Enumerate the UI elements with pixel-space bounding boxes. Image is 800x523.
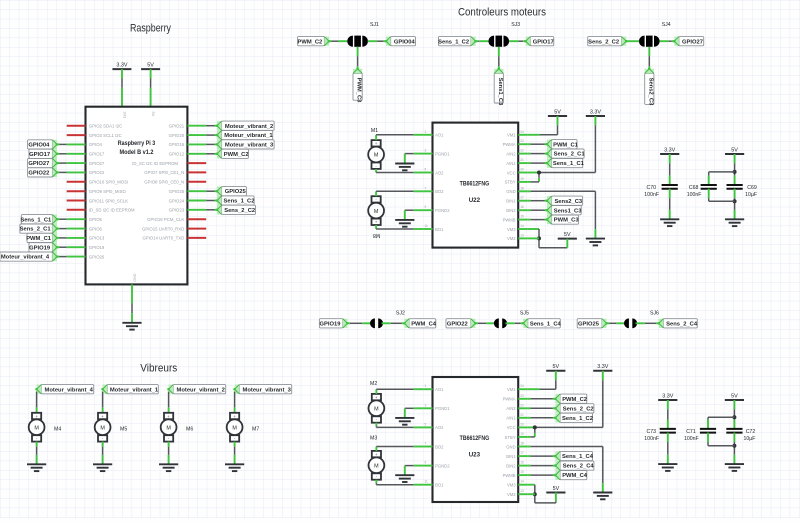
- net label PWM_C4: [554, 471, 588, 480]
- svg-text:100nF: 100nF: [684, 436, 699, 442]
- svg-text:M: M: [374, 209, 379, 215]
- svg-text:AIN2: AIN2: [506, 406, 516, 411]
- wire GPIO27 to U21: [57, 162, 86, 164]
- wire U23 AIN2 to Sens_2_C2: [528, 407, 556, 409]
- svg-text:M3: M3: [370, 435, 377, 441]
- wire U23 VCC to 3.3V: [528, 426, 603, 428]
- svg-text:PWM_C2: PWM_C2: [297, 39, 322, 45]
- svg-text:PWM_C1: PWM_C1: [553, 142, 579, 148]
- svg-text:PWM_C4: PWM_C4: [562, 473, 588, 479]
- wire M1 - to U22 AO2: [376, 172, 423, 174]
- wire 3.3V to C70: [669, 154, 671, 185]
- svg-text:GPIO17: GPIO17: [533, 39, 554, 45]
- net label Sens_1_C4: [554, 451, 594, 460]
- junction: [533, 425, 537, 429]
- svg-text:PWMA: PWMA: [503, 142, 516, 147]
- svg-text:5V: 5V: [731, 147, 738, 153]
- net label PWM_C1: [26, 233, 58, 242]
- svg-text:BO2: BO2: [435, 444, 444, 449]
- solder jumper SJ5: [494, 310, 529, 328]
- wire PGND2 drop: [404, 466, 406, 476]
- svg-text:GPIO19: GPIO19: [89, 245, 105, 250]
- svg-text:C72: C72: [746, 429, 756, 435]
- net label Sens1_C3: [494, 68, 503, 107]
- svg-text:Sens_2_C4: Sens_2_C4: [666, 321, 698, 327]
- power 5V (Raspberry): [141, 63, 160, 70]
- svg-text:Moteur_vibrant_4: Moteur_vibrant_4: [45, 387, 94, 393]
- wire 5V to U21 pin 5V: [150, 69, 152, 107]
- Raspberry Pi U21 body: [86, 107, 188, 285]
- wire GPIO22 to U21: [57, 171, 86, 173]
- wire 3.3V column: [594, 116, 596, 173]
- unconnected pin stub GPIO7 SPI0_CE1_N: [187, 171, 206, 173]
- svg-text:PWM_C1: PWM_C1: [26, 236, 52, 242]
- wire U21 to Sens_1_C2: [187, 200, 217, 202]
- svg-text:Sens_2_C2: Sens_2_C2: [224, 208, 255, 214]
- svg-text:Raspberry: Raspberry: [130, 23, 171, 35]
- svg-text:GND: GND: [133, 273, 137, 282]
- svg-text:3.3V: 3.3V: [116, 63, 127, 69]
- net label Moteur_vibrant_3: [216, 140, 274, 149]
- svg-text:Sens_1_C2: Sens_1_C2: [438, 39, 469, 45]
- svg-text:Sens1_C3: Sens1_C3: [554, 208, 582, 214]
- svg-text:1: 1: [425, 384, 427, 388]
- junction: [533, 492, 537, 496]
- ground (M7): [225, 464, 244, 471]
- svg-text:22: 22: [520, 403, 524, 407]
- svg-text:VM1: VM1: [507, 387, 516, 392]
- svg-text:PWM_C4: PWM_C4: [411, 321, 437, 327]
- net label Sens_1_C1: [20, 215, 58, 224]
- svg-text:Sens_1_C2: Sens_1_C2: [224, 199, 255, 205]
- ground (C73): [658, 464, 677, 471]
- net label Sens_1_C2: [438, 37, 477, 46]
- svg-text:GPIO21: GPIO21: [169, 124, 185, 129]
- svg-text:GPIO19: GPIO19: [29, 245, 51, 251]
- wire AO1 riser to M1 +: [375, 135, 377, 140]
- unconnected pin stub GPIO3 SCL1 I2C: [67, 134, 86, 136]
- svg-text:M: M: [100, 425, 105, 431]
- net label GPIO25: [577, 319, 608, 328]
- net label Sens_2_C4: [658, 319, 698, 328]
- svg-text:PWMB: PWMB: [503, 473, 516, 478]
- wire 5V stub: [555, 493, 557, 503]
- wire U22 PGND2: [405, 209, 423, 211]
- svg-text:AO1: AO1: [435, 133, 444, 138]
- svg-text:GPIO04: GPIO04: [394, 39, 416, 45]
- svg-text:GPIO22: GPIO22: [89, 170, 105, 175]
- solder jumper SJ6: [624, 310, 659, 328]
- wire U23 PWMA to PWM_C2: [528, 398, 556, 400]
- wire U23 VM2: [528, 493, 535, 495]
- ground (M6): [159, 464, 178, 471]
- wire M5 to ground: [102, 442, 104, 465]
- power 5V (C68 C69): [725, 147, 744, 154]
- net label GPIO17: [29, 149, 58, 158]
- svg-text:10µF: 10µF: [745, 192, 757, 198]
- wire U22 BIN1 to Sens2_C3: [528, 200, 547, 202]
- wire U22 BIN2 to Sens1_C3: [528, 209, 547, 211]
- wire VM3 drop: [538, 229, 540, 248]
- svg-text:BO1: BO1: [435, 483, 444, 488]
- wire SJ4 pad 2 to GPIO27: [660, 40, 675, 42]
- svg-text:M6: M6: [186, 427, 193, 433]
- net label Moteur_vibrant_1 (M5): [101, 385, 159, 394]
- svg-text:100nF: 100nF: [644, 192, 659, 198]
- svg-text:GPIO23: GPIO23: [169, 208, 185, 213]
- svg-text:BO2: BO2: [435, 189, 444, 194]
- net label GPIO17: [524, 37, 553, 46]
- svg-text:22: 22: [520, 149, 524, 153]
- svg-text:GPIO27: GPIO27: [682, 39, 703, 45]
- unconnected pin stub GPIO2 SDA1 I2C: [67, 125, 86, 127]
- svg-text:Model B v1.2: Model B v1.2: [120, 149, 154, 156]
- svg-text:U23: U23: [469, 452, 481, 459]
- svg-text:GPIO6: GPIO6: [89, 226, 103, 231]
- svg-text:17: 17: [520, 451, 524, 455]
- net label Sens_1_C2: [216, 196, 255, 205]
- svg-text:9: 9: [425, 461, 427, 465]
- svg-text:GPIO20: GPIO20: [169, 133, 185, 138]
- wire STBY riser: [534, 427, 536, 437]
- svg-text:Sens_2_C2: Sens_2_C2: [563, 406, 594, 412]
- net label Sens_1_C4: [522, 319, 562, 328]
- svg-text:24: 24: [520, 130, 524, 134]
- svg-text:Moteur_vibrant_4: Moteur_vibrant_4: [1, 255, 50, 261]
- unconnected pin stub ID_SD I2C ID EEPROM: [67, 209, 86, 211]
- svg-text:11: 11: [425, 224, 429, 228]
- IC U23 TB6612FNG body: [423, 377, 527, 502]
- svg-text:AO1: AO1: [435, 387, 444, 392]
- svg-text:PWM_C3: PWM_C3: [554, 218, 580, 224]
- svg-text:3: 3: [425, 403, 427, 407]
- net label Sens_1_C1: [546, 159, 585, 168]
- unconnected pin stub GPIO18 PCM_CLK: [187, 218, 206, 220]
- svg-text:SJ1: SJ1: [370, 22, 379, 28]
- svg-text:M2: M2: [370, 381, 377, 387]
- capacitor C70 100nF: [644, 185, 678, 198]
- net label GPIO04: [28, 140, 59, 149]
- wire U22 VM3: [528, 228, 539, 230]
- svg-text:Vibreurs: Vibreurs: [140, 363, 177, 375]
- net label GPIO27: [28, 159, 59, 168]
- svg-text:Sens2_C3: Sens2_C3: [554, 199, 582, 205]
- svg-text:M: M: [34, 425, 39, 431]
- ground (U23 PGND2): [395, 475, 414, 482]
- svg-text:5V: 5V: [731, 393, 738, 399]
- svg-text:GPIO13: GPIO13: [89, 236, 105, 241]
- ground (M4): [27, 464, 46, 471]
- wire SJ5 to Sens_1_C4: [505, 322, 523, 324]
- wire M4 to ground: [36, 442, 38, 465]
- wire M8 - riser: [375, 225, 377, 229]
- wire SJ6 to Sens_2_C4: [636, 322, 659, 324]
- net label Moteur_vibrant_2: [216, 121, 274, 130]
- unconnected pin stub ID_SC I2C ID EEPROM: [187, 162, 206, 164]
- wire GPIO25 to SJ6: [607, 322, 626, 324]
- svg-text:C70: C70: [647, 185, 657, 191]
- wire C69 to ground: [734, 189, 736, 220]
- wire M2 - riser: [375, 423, 377, 428]
- svg-text:14: 14: [520, 480, 524, 484]
- svg-text:GPIO4: GPIO4: [89, 142, 103, 147]
- net label GPIO04: [385, 37, 416, 46]
- net label Sens_2_C1: [546, 149, 586, 158]
- svg-text:23: 23: [520, 394, 524, 398]
- svg-text:13: 13: [520, 233, 524, 237]
- net label PWM_C3: [353, 68, 362, 104]
- wire M2 - to U23 AO2: [376, 426, 423, 428]
- svg-text:SJ3: SJ3: [511, 22, 520, 28]
- wire 5V to C69: [734, 154, 736, 185]
- wire GPIO19 to SJ2: [347, 322, 371, 324]
- svg-text:SJ4: SJ4: [662, 22, 671, 28]
- capacitor C71 100nF: [684, 429, 716, 442]
- wire C72 to ground: [733, 433, 735, 465]
- wire 5V to C72: [733, 400, 735, 429]
- svg-text:GPIO9 SPI0_MISO: GPIO9 SPI0_MISO: [89, 189, 127, 194]
- wire GPIO17 to U21: [57, 153, 86, 155]
- wire Sens_1_C2 to SJ3 pad 1: [476, 40, 489, 42]
- net label GPIO19: [29, 243, 58, 252]
- svg-text:GPIO15 UART0_RXD: GPIO15 UART0_RXD: [142, 226, 184, 231]
- net label PWM_C2: [297, 37, 330, 46]
- wire SJ4 pad 3 to Sens2_C3: [648, 47, 650, 69]
- svg-text:GPIO04: GPIO04: [28, 143, 50, 149]
- wire C71 top branch: [708, 416, 734, 418]
- svg-text:AIN1: AIN1: [506, 416, 516, 421]
- svg-text:M7: M7: [252, 427, 259, 433]
- wire GPIO22 to SJ5: [475, 322, 495, 324]
- svg-text:VM3: VM3: [507, 227, 516, 232]
- net label Moteur_vibrant_4 (M4): [35, 385, 93, 394]
- svg-text:21: 21: [520, 413, 524, 417]
- svg-text:GPIO25: GPIO25: [225, 189, 247, 195]
- wire U21 to PWM_C2: [187, 153, 217, 155]
- svg-text:GPIO18 PCM_CLK: GPIO18 PCM_CLK: [147, 217, 184, 222]
- svg-text:15: 15: [520, 215, 524, 219]
- svg-text:Controleurs moteurs: Controleurs moteurs: [458, 7, 546, 19]
- wire Sens_2_C2 to SJ4 pad 1: [626, 40, 639, 42]
- motor M5: [95, 413, 128, 442]
- svg-text:TB6612FNG: TB6612FNG: [460, 435, 490, 442]
- svg-text:14: 14: [520, 224, 524, 228]
- svg-text:GPIO22: GPIO22: [28, 171, 49, 177]
- ground (U22 PGND1): [395, 164, 414, 171]
- svg-text:PWM_C2: PWM_C2: [562, 397, 587, 403]
- unconnected pin stub GPIO8 SPI0_CE0_N: [187, 181, 206, 183]
- wire 3.3V column: [602, 371, 604, 428]
- svg-text:M5: M5: [120, 427, 127, 433]
- motor M3: [369, 435, 385, 479]
- svg-text:GPIO7 SPI0_CE1_N: GPIO7 SPI0_CE1_N: [144, 170, 184, 175]
- svg-text:15: 15: [520, 470, 524, 474]
- wire SJ1 pad 3 to PWM_C3: [357, 47, 359, 69]
- svg-text:GPIO24: GPIO24: [169, 198, 185, 203]
- svg-text:Sens_2_C1: Sens_2_C1: [554, 152, 586, 158]
- wire to 5V: [535, 502, 556, 504]
- wire U22 AIN1 to Sens_1_C1: [528, 162, 547, 164]
- wire PWM_C1 to U21: [57, 237, 86, 239]
- wire M7 to ground: [234, 442, 236, 465]
- ground (U23 GND): [593, 493, 612, 500]
- svg-text:PGND2: PGND2: [435, 463, 450, 468]
- svg-text:GPIO17: GPIO17: [89, 152, 105, 157]
- svg-text:PGND1: PGND1: [435, 406, 450, 411]
- svg-text:VCC: VCC: [507, 170, 516, 175]
- net label Sens1_C3: [546, 206, 583, 215]
- wire C71 bottom: [707, 433, 709, 446]
- svg-text:5V: 5V: [151, 112, 155, 117]
- wire M3 + to U23 BO2: [376, 446, 423, 448]
- junction: [732, 415, 736, 419]
- net label Sens2_C3: [645, 68, 654, 107]
- wire M6 to ground: [168, 442, 170, 465]
- svg-text:Moteur_vibrant_2: Moteur_vibrant_2: [177, 387, 225, 393]
- wire U22 PWMB to PWM_C3: [528, 219, 547, 221]
- wire U23 PGND2: [405, 465, 423, 467]
- svg-text:GPIO19: GPIO19: [320, 321, 342, 327]
- net label Moteur_vibrant_4: [0, 252, 58, 261]
- net label GPIO19: [319, 319, 348, 328]
- wire BO2 riser to M8: [375, 191, 377, 196]
- svg-text:C71: C71: [686, 429, 696, 435]
- power 5V (U22 VM1): [548, 109, 567, 116]
- svg-text:Moteur_vibrant_1: Moteur_vibrant_1: [224, 133, 273, 139]
- wire GPIO19 to U21: [57, 246, 86, 248]
- wire U21 GND to ground: [131, 284, 133, 322]
- svg-text:11: 11: [425, 480, 429, 484]
- power 3.3V (Raspberry): [112, 63, 131, 70]
- wire C73 to ground: [667, 433, 669, 465]
- svg-text:Sens1_C3: Sens1_C3: [497, 78, 503, 106]
- wire U23 VM1 to 5V: [528, 388, 556, 390]
- svg-text:GPIO25: GPIO25: [169, 189, 185, 194]
- power 5V (U22 VM2): [558, 232, 577, 239]
- svg-text:BIN1: BIN1: [506, 454, 516, 459]
- net label PWM_C3: [546, 215, 580, 224]
- wire U22 VM2: [528, 237, 539, 239]
- power 5V (U23 VM1): [546, 364, 565, 371]
- svg-text:GPIO5: GPIO5: [89, 217, 103, 222]
- svg-text:C73: C73: [647, 429, 657, 435]
- svg-text:GPIO27: GPIO27: [89, 161, 105, 166]
- svg-text:Sens_1_C1: Sens_1_C1: [20, 217, 52, 223]
- svg-text:Sens_2_C1: Sens_2_C1: [20, 227, 52, 233]
- svg-text:PWMA: PWMA: [503, 397, 516, 402]
- svg-text:5: 5: [425, 168, 427, 172]
- wire C68 bottom: [708, 189, 710, 202]
- wire Moteur_vibrant_4 to M4: [36, 392, 38, 413]
- svg-text:M: M: [374, 464, 379, 470]
- svg-text:M: M: [232, 425, 237, 431]
- svg-text:3.3V: 3.3V: [662, 393, 673, 399]
- net label PWM_C2: [554, 394, 587, 403]
- svg-text:STBY: STBY: [505, 435, 516, 440]
- wire U21 to Moteur_vibrant_1: [187, 134, 217, 136]
- wire 5V stub: [566, 239, 568, 248]
- solder jumper SJ4: [639, 22, 671, 47]
- wire C71 bottom branch: [708, 445, 734, 447]
- ground (Raspberry): [122, 323, 141, 330]
- unconnected pin stub GPIO11 SPI0_SCLK: [67, 200, 86, 202]
- svg-text:9: 9: [425, 205, 427, 209]
- motor M1: [368, 128, 384, 169]
- svg-text:BO1: BO1: [435, 227, 444, 232]
- svg-text:16: 16: [520, 461, 524, 465]
- wire PWM_C2 to SJ1 pad 1: [329, 40, 347, 42]
- capacitor C69 10uF: [727, 185, 758, 198]
- svg-text:Sens_1_C2: Sens_1_C2: [562, 416, 593, 422]
- wire C68 top branch: [709, 171, 735, 173]
- solder jumper SJ1: [347, 22, 379, 47]
- wire to 5V: [539, 247, 567, 249]
- svg-text:VM3: VM3: [507, 483, 516, 488]
- wire M1 - riser: [375, 169, 377, 172]
- wire C70 to ground: [669, 189, 671, 220]
- junction: [733, 199, 737, 203]
- wire U22 PWMA to PWM_C1: [528, 143, 547, 145]
- net label Sens_2_C2: [216, 205, 256, 214]
- svg-text:PWM_C2: PWM_C2: [224, 152, 249, 158]
- power 3.3V (U22 VCC): [586, 109, 605, 116]
- wire 3.3V to U21 pin 3V3: [121, 69, 123, 107]
- wire STBY riser: [538, 173, 540, 182]
- wire U23 GND drop: [602, 447, 604, 493]
- wire U23 PWMB to PWM_C4: [528, 474, 556, 476]
- svg-text:16: 16: [520, 205, 524, 209]
- svg-text:AO2: AO2: [435, 170, 444, 175]
- wire 5V drop: [555, 371, 557, 389]
- svg-text:M8: M8: [373, 232, 380, 238]
- wire M3 - to U23 BO1: [376, 484, 423, 486]
- svg-text:18: 18: [520, 442, 524, 446]
- svg-text:10µF: 10µF: [744, 436, 756, 442]
- ground (U22 GND): [586, 239, 605, 246]
- svg-text:Moteur_vibrant_1: Moteur_vibrant_1: [110, 387, 159, 393]
- svg-text:21: 21: [520, 158, 524, 162]
- net label Sens_2_C1: [20, 224, 59, 233]
- svg-text:BIN1: BIN1: [506, 199, 516, 204]
- unconnected pin stub GPIO14 UART0_TXD: [187, 237, 206, 239]
- svg-text:PGND1: PGND1: [435, 151, 450, 156]
- svg-text:AIN2: AIN2: [506, 151, 516, 156]
- motor M6: [161, 413, 194, 442]
- power 3.3V (C73): [658, 393, 677, 400]
- svg-text:M4: M4: [54, 427, 61, 433]
- svg-text:Moteur_vibrant_2: Moteur_vibrant_2: [225, 124, 273, 130]
- svg-text:GPIO3 SCL1 I2C: GPIO3 SCL1 I2C: [89, 133, 122, 138]
- svg-text:24: 24: [520, 384, 524, 388]
- net label Moteur_vibrant_2 (M6): [167, 385, 225, 394]
- svg-text:Moteur_vibrant_3: Moteur_vibrant_3: [243, 387, 292, 393]
- svg-text:Sens_1_C1: Sens_1_C1: [553, 161, 585, 167]
- wire into C71: [707, 417, 709, 429]
- svg-text:PWM_C3: PWM_C3: [356, 78, 362, 104]
- svg-text:100nF: 100nF: [687, 192, 702, 198]
- wire U23 STBY: [528, 436, 535, 438]
- wire U23 GND: [528, 446, 603, 448]
- unconnected pin stub GPIO15 UART0_RXD: [187, 228, 206, 230]
- wire Moteur_vibrant_1 to M5: [102, 392, 104, 413]
- svg-text:100nF: 100nF: [644, 436, 659, 442]
- net label Sens_2_C2: [588, 37, 628, 46]
- svg-text:ID_SC I2C ID EEPROM: ID_SC I2C ID EEPROM: [132, 161, 178, 166]
- svg-text:17: 17: [520, 196, 524, 200]
- svg-text:SJ5: SJ5: [520, 310, 529, 316]
- wire Sens_1_C1 to U21: [57, 218, 86, 220]
- wire C68 bottom branch: [709, 200, 735, 202]
